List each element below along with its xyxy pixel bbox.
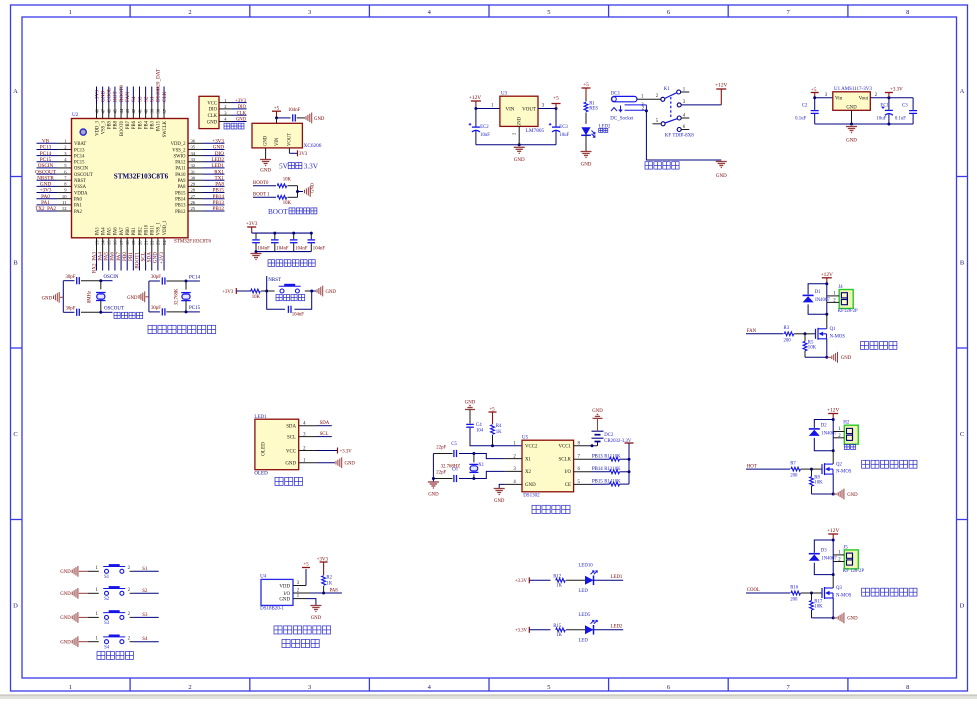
wire top [149,280,160,282]
wire drain [826,314,828,329]
svg-text:BOOT1: BOOT1 [134,252,140,269]
resistor R8 10K [811,469,813,477]
svg-text:R4: R4 [496,424,502,429]
svg-text:BOOT 1: BOOT 1 [253,193,270,198]
svg-text:S3: S3 [104,621,110,626]
svg-text:+5: +5 [303,563,309,568]
svg-text:STM32F103C8T6: STM32F103C8T6 [114,173,169,181]
svg-text:PC14: PC14 [74,154,85,159]
svg-text:GND: GND [42,296,53,301]
wire bottom [805,356,827,358]
svg-text:VDD_3: VDD_3 [95,120,100,135]
svg-text:PB12: PB12 [175,210,186,215]
svg-text:10K: 10K [252,295,261,300]
svg-text:PB11: PB11 [151,224,156,235]
svg-text:OSCIN: OSCIN [74,167,89,172]
wire [470,428,522,446]
pin 4 GND wire [505,483,522,485]
MCU U2 right pin 29 PA8 wire [188,185,203,187]
svg-text:44: 44 [119,108,124,113]
svg-text:PB4: PB4 [144,120,149,129]
svg-text:DS1302: DS1302 [523,494,540,499]
svg-text:N-MOS: N-MOS [836,470,852,475]
svg-text:S1: S1 [104,575,110,580]
MCU U2 right pin 28 PB15 wire [188,192,203,194]
svg-text:+3V3: +3V3 [212,139,224,145]
svg-text:GND: GND [518,116,523,127]
svg-text:LED1: LED1 [611,575,623,580]
MCU U2 right pin 31 PA10 wire [188,173,203,175]
MCU U2 left pin 10 PA0 wire [37,198,58,200]
wire gate [746,592,790,594]
svg-text:VCC: VCC [286,449,296,454]
svg-text:GND: GND [846,105,857,110]
svg-text:COOL: COOL [747,588,760,593]
switch pin 6 [677,128,681,132]
capacitor C6 22pF [459,478,474,480]
svg-text:VDD_2: VDD_2 [171,142,186,147]
switch pin 2 [661,97,665,101]
svg-text:GND: GND [494,499,505,504]
svg-text:PA3: PA3 [95,227,100,236]
svg-text:VSS_1: VSS_1 [157,221,162,235]
svg-text:200: 200 [790,474,798,479]
caption cooling output control [862,588,870,596]
svg-text:S4: S4 [131,96,137,102]
svg-text:STM32F103C8T6: STM32F103C8T6 [174,240,211,245]
caption chip filter capacitors [268,260,275,267]
svg-text:38: 38 [156,108,161,113]
svg-text:LED2: LED2 [211,157,224,163]
svg-text:B: B [960,259,965,266]
svg-text:CLK: CLK [162,91,168,102]
caption waterproof package [282,639,290,647]
resistor R9 10K [277,184,287,188]
svg-text:C3: C3 [902,103,908,108]
svg-text:16: 16 [113,240,118,245]
MCU U2 right pin 30 PA9 wire [188,179,203,181]
svg-text:U3: U3 [501,92,508,97]
svg-text:RX2_PA3: RX2_PA3 [91,252,97,274]
svg-text:R15: R15 [553,624,562,629]
switch gang dashed link [670,97,672,118]
wire diode loop [832,539,835,542]
svg-text:2: 2 [188,684,191,691]
svg-text:30pF: 30pF [151,306,161,311]
MCU U2 top pin 44 BOOT0 wire [120,87,122,105]
node S3 [133,616,159,618]
pin VIN wire [276,118,278,123]
svg-text:PB0: PB0 [122,252,128,261]
MCU U2 top pin 42 PB6 wire [132,87,134,105]
resistor R15 1K [556,628,566,632]
svg-text:R16: R16 [790,585,799,590]
MCU U2 top pin 37 SWCLK wire [163,87,165,105]
svg-text:+5: +5 [274,107,280,112]
svg-text:GND: GND [264,135,269,146]
svg-text:D1: D1 [815,290,821,295]
svg-text:GND: GND [100,91,106,102]
svg-text:GND: GND [345,462,356,467]
svg-text:45: 45 [113,108,118,113]
switch pin 5 [661,122,665,126]
capacitor C9 104nF [293,233,295,239]
svg-text:GND: GND [60,592,71,597]
pin 6 I/O wire [574,471,591,473]
svg-text:25: 25 [191,206,196,211]
svg-text:15: 15 [107,240,112,245]
wire diode loop [832,418,835,421]
diode D2 1N4007 [809,428,820,430]
caption fan control [861,342,869,350]
wire bottom [63,311,74,313]
svg-text:BOOT0: BOOT0 [120,120,125,136]
svg-text:23: 23 [156,240,161,245]
regulator U3 LM7805 body [500,96,538,126]
MCU U2 bottom pin 17 PA7 wire [120,238,122,255]
svg-text:+3V3: +3V3 [246,222,258,227]
svg-text:VSS_2: VSS_2 [172,148,186,153]
svg-text:GND: GND [326,290,337,295]
wire gnd [310,290,313,293]
svg-text:36: 36 [191,139,196,144]
svg-text:PB1: PB1 [132,227,137,236]
svg-text:PB5: PB5 [138,120,143,129]
battery DC2 CR2032 [597,442,599,446]
svg-text:8: 8 [906,9,909,16]
svg-text:10K: 10K [283,178,292,183]
diode D3 1N4007 [809,553,820,555]
svg-text:0.1uF: 0.1uF [895,116,906,121]
svg-text:NRST: NRST [268,278,281,283]
crystal Y2 [185,281,187,290]
wire BOOT0 [253,185,276,187]
svg-text:LED: LED [579,589,589,594]
svg-text:Q1: Q1 [830,327,836,332]
svg-text:DC2: DC2 [604,433,614,438]
svg-text:GND: GND [260,169,271,174]
wire drain [832,575,834,588]
MCU U2 bottom pin 16 PA6 wire [114,238,116,255]
ground GND [827,356,831,358]
MCU U2 left pin 6 OSCOUT wire [37,173,58,175]
ground GND [833,617,837,619]
svg-text:30: 30 [191,175,196,180]
svg-text:104nF: 104nF [288,108,301,113]
MCU U2 left pin 12 PA2 wire [37,210,58,212]
svg-text:104nF: 104nF [295,247,308,252]
node S4 [133,641,159,643]
pin X2 wire [505,470,522,472]
wire gate [746,333,784,335]
svg-text:PA7: PA7 [120,227,125,236]
svg-text:17: 17 [119,240,124,245]
svg-text:D2: D2 [821,424,827,429]
svg-text:DIO: DIO [215,151,224,157]
svg-text:10K: 10K [814,481,823,486]
wire source [826,339,828,358]
svg-text:43: 43 [125,108,130,113]
ground GND right of cap [305,116,307,120]
MCU U2 bottom pin 24 VDD_1 wire [163,238,165,255]
svg-text:42: 42 [131,108,136,113]
MCU U2 STM32F103C8T6 body [72,119,189,238]
svg-text:N-MOS: N-MOS [836,594,852,599]
MCU U2 left pin 1 VBAT wire [37,142,58,144]
svg-text:PA4: PA4 [101,227,106,236]
svg-text:22pF: 22pF [436,470,446,475]
wire junction [297,186,299,198]
crystal Y1 [100,281,102,290]
svg-text:27: 27 [191,194,196,199]
capacitor C? 30pF top [76,277,78,284]
svg-text:PB10: PB10 [144,224,149,235]
MCU U2 bottom pin 21 PB10 wire [145,238,147,255]
MCU U2 right pin 26 PB13 wire [188,204,203,206]
wire bottom loop [267,291,285,309]
caption display [275,477,283,485]
ground GND [432,479,434,483]
svg-text:12: 12 [62,206,67,211]
svg-text:PB14: PB14 [592,467,603,472]
pin 3 VDD wire [293,585,306,587]
ground GND [251,253,262,255]
svg-text:3.3V: 3.3V [304,162,319,171]
switch pin 1 [677,90,681,94]
svg-text:30pF: 30pF [66,275,76,280]
svg-text:26: 26 [191,200,196,205]
transistor Q1 N-MOS [815,329,817,339]
svg-text:+3.3V: +3.3V [515,628,528,633]
node LED2 [594,629,623,631]
svg-text:41: 41 [137,108,142,113]
transistor Q3 N-MOS [821,588,823,598]
switch pin 4 [677,116,681,120]
switch pin 3 [677,103,681,107]
svg-text:D: D [960,602,965,609]
wire bottom [149,311,160,313]
wire bottom [812,493,834,495]
button S3 [88,616,99,618]
svg-text:1K: 1K [496,430,502,435]
svg-text:3: 3 [308,684,311,691]
svg-text:PA5: PA5 [108,227,113,236]
MCU U2 bottom pin 14 PA4 wire [102,238,104,255]
svg-text:X1: X1 [478,463,484,468]
wire diode loop [825,282,828,285]
node SDA [317,425,332,427]
MCU U2 left pin 8 VSSA wire [37,185,58,187]
svg-text:VDD_1: VDD_1 [163,220,168,235]
svg-text:SCL: SCL [140,252,146,262]
svg-text:OSCOUT: OSCOUT [74,173,93,178]
MCU U2 right pin 36 VDD_2 wire [188,142,203,144]
svg-text:KF TDIP-8X8: KF TDIP-8X8 [665,133,694,138]
svg-text:GND: GND [581,162,592,167]
svg-text:37: 37 [162,108,167,113]
svg-text:RX1: RX1 [214,169,224,175]
capacitor 30pF bottom [161,308,163,315]
node PA8 [324,592,342,594]
svg-text:OSCIN: OSCIN [38,163,54,169]
svg-text:Q3: Q3 [836,586,842,591]
wire main column [832,540,834,575]
svg-text:SCL: SCL [287,435,296,440]
svg-text:VCC2: VCC2 [525,445,538,450]
svg-text:OLED: OLED [261,442,267,456]
wire [585,113,587,124]
ground GND [494,488,505,490]
svg-text:SWIO: SWIO [174,154,187,159]
svg-text:104: 104 [476,429,484,434]
svg-text:GND: GND [465,401,476,406]
svg-text:N-MOS: N-MOS [830,334,846,339]
svg-text:GND: GND [592,409,603,414]
svg-text:KF128-2P: KF128-2P [838,309,858,314]
svg-text:PC13: PC13 [40,145,52,151]
svg-text:S1: S1 [142,567,148,572]
svg-text:GND: GND [841,356,852,361]
svg-text:PB15: PB15 [175,191,186,196]
svg-text:K1: K1 [664,87,671,92]
svg-text:GND: GND [514,158,525,163]
svg-text:DIO: DIO [209,108,218,113]
svg-text:SDA: SDA [147,252,153,263]
svg-text:S2: S2 [143,96,149,102]
svg-text:VIN: VIN [275,137,280,146]
wire junction [804,332,807,335]
svg-text:TX2_PA2: TX2_PA2 [35,206,56,212]
svg-text:GND: GND [847,493,858,498]
svg-text:PA6: PA6 [114,227,119,236]
power +3.3V [887,96,890,99]
capacitor C10 104nF [310,233,312,239]
svg-text:34: 34 [191,151,196,156]
svg-text:PA9: PA9 [178,179,187,184]
svg-text:LED10: LED10 [579,563,594,568]
svg-text:104nF: 104nF [313,247,326,252]
MCU U2 right pin 34 SWIO wire [188,155,203,157]
svg-text:GND: GND [207,120,218,125]
node NRST [265,290,268,293]
svg-text:S1: S1 [150,96,156,102]
wire drain [832,451,834,464]
transistor Q2 N-MOS [821,464,823,474]
svg-text:S2: S2 [104,597,110,602]
MCU U2 top pin 41 PB5 wire [138,87,140,105]
svg-text:5: 5 [547,684,550,691]
ground GND [716,161,727,163]
svg-text:VB: VB [42,139,50,145]
MCU U2 bottom pin 20 PB2 wire [138,238,140,255]
MCU U2 left pin 3 PC14 wire [37,155,58,157]
pin 1 GND wire [293,598,306,600]
svg-text:COOL: COOL [107,88,113,102]
MCU U2 bottom pin 22 PB11 wire [151,238,153,255]
node LED1 [594,579,623,581]
svg-text:LM7805: LM7805 [526,128,545,134]
wire [585,135,587,152]
MCU U2 right pin 27 PB14 wire [188,198,203,200]
svg-text:VOUT: VOUT [522,108,536,113]
pin GND wire [851,110,853,124]
wire bottom [476,144,556,146]
MCU U2 left pin 7 NRST wire [37,179,58,181]
MCU U2 pin-1 mark [80,129,86,135]
svg-text:PA5: PA5 [104,252,110,261]
resistor 10K [251,289,261,293]
svg-text:RES: RES [589,107,598,112]
svg-text:GND: GND [279,597,290,602]
socket ground prong [611,108,617,112]
svg-text:PB0: PB0 [126,227,131,236]
wire VIN node [277,117,291,119]
svg-text:PA1: PA1 [74,204,83,209]
svg-text:GND: GND [236,118,247,123]
svg-text:32.768K: 32.768K [175,288,180,305]
wire source [832,474,834,494]
svg-text:SWCLK: SWCLK [163,120,168,137]
svg-text:104nF: 104nF [276,247,289,252]
svg-text:PB15: PB15 [592,480,603,485]
svg-text:10uF: 10uF [876,116,886,121]
svg-text:FAN: FAN [747,329,757,334]
svg-text:28: 28 [191,188,196,193]
MCU U2 left pin 4 PC15 wire [37,161,58,163]
svg-text:PB3: PB3 [151,120,156,129]
MCU U2 left pin 5 OSCIN wire [37,167,58,169]
svg-text:0.1uF: 0.1uF [795,116,806,121]
svg-text:104nF: 104nF [292,313,305,318]
MCU U2 top pin 45 PB8 wire [114,87,116,105]
svg-text:11: 11 [62,200,67,205]
MCU U2 bottom pin 15 PA5 wire [108,238,110,255]
svg-text:PA7: PA7 [116,252,122,261]
svg-text:13: 13 [94,240,99,245]
capacitor 104nF [292,114,294,121]
svg-text:VCC1: VCC1 [558,445,571,450]
resistor R1 RES [585,99,587,102]
svg-text:32: 32 [191,163,196,168]
svg-text:GND: GND [127,296,138,301]
wire main column [826,284,828,315]
svg-text:GND: GND [60,616,71,621]
wire left rail [148,281,150,312]
caption MCU minimal system [148,325,156,333]
svg-text:B: B [13,259,18,266]
svg-text:GND: GND [285,462,296,467]
svg-text:PC15: PC15 [189,306,201,311]
svg-text:CE: CE [565,483,571,488]
svg-text:U2: U2 [72,112,79,118]
ground GND [316,289,318,293]
svg-text:PC14: PC14 [189,275,201,280]
switch lever 5-4 [665,119,678,123]
svg-text:BOOT0: BOOT0 [119,85,125,102]
svg-text:GND: GND [716,174,727,179]
svg-text:5: 5 [547,9,550,16]
svg-text:PA8: PA8 [178,185,187,190]
MCU U2 left pin 9 VDDA wire [37,192,58,194]
caption temperature module [274,626,282,634]
svg-text:10uF: 10uF [480,133,490,138]
pin GND wire + ground [265,148,267,159]
svg-text:Vin: Vin [835,97,843,102]
svg-text:I/O: I/O [564,470,571,475]
power +5 [555,107,558,110]
svg-text:PA0: PA0 [41,194,50,200]
capacitor C4 104 [466,423,474,425]
